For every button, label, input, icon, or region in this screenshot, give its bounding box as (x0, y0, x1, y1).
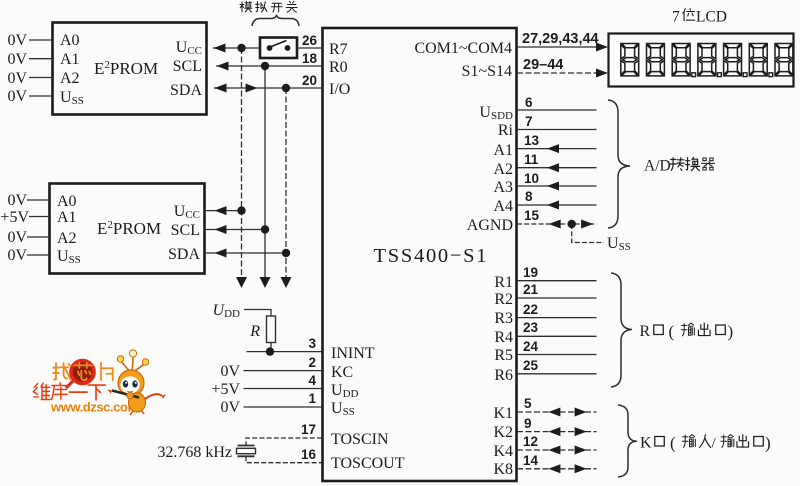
svg-text:13: 13 (524, 133, 540, 148)
svg-text:24: 24 (523, 339, 539, 354)
svg-text:E2PROM: E2PROM (97, 219, 161, 238)
svg-text:): ) (728, 322, 734, 341)
svg-text:K4: K4 (493, 443, 513, 460)
svg-text:TOSCOUT: TOSCOUT (331, 455, 405, 472)
svg-text:R4: R4 (494, 329, 513, 346)
svg-text:0V: 0V (7, 70, 27, 87)
svg-text:16: 16 (301, 447, 317, 462)
svg-text:12: 12 (523, 434, 538, 449)
svg-text:14: 14 (523, 453, 539, 468)
svg-text:KC: KC (331, 364, 353, 381)
svg-text:K8: K8 (493, 461, 513, 478)
svg-text:R0: R0 (329, 59, 348, 76)
svg-text:15: 15 (524, 208, 540, 223)
svg-text:0V: 0V (7, 192, 27, 209)
svg-text:0V: 0V (220, 363, 240, 380)
svg-text:SCL: SCL (171, 222, 200, 239)
svg-text:(: ( (669, 322, 675, 341)
svg-text:11: 11 (524, 152, 539, 167)
svg-text:R2: R2 (494, 291, 513, 308)
svg-text:AGND: AGND (467, 217, 513, 234)
svg-text:SCL: SCL (173, 58, 202, 75)
svg-text:26: 26 (302, 33, 318, 48)
svg-text:Ri: Ri (498, 122, 514, 139)
svg-text:A0: A0 (60, 32, 80, 49)
svg-text:0V: 0V (220, 399, 240, 416)
svg-text:TOSCIN: TOSCIN (331, 431, 389, 448)
svg-text:A1: A1 (60, 51, 80, 68)
svg-text:0V: 0V (7, 88, 27, 105)
svg-text:17: 17 (301, 422, 316, 437)
svg-text:4: 4 (308, 373, 316, 388)
svg-text:18: 18 (302, 51, 318, 66)
svg-text:7: 7 (525, 114, 533, 129)
svg-text:21: 21 (523, 282, 539, 297)
svg-text:K: K (640, 435, 652, 452)
svg-text:5: 5 (524, 396, 532, 411)
svg-text:): ) (765, 434, 771, 453)
svg-text:A2: A2 (60, 70, 80, 87)
svg-text:27,29,43,44: 27,29,43,44 (522, 31, 599, 47)
svg-text:20: 20 (302, 73, 317, 88)
svg-text:A4: A4 (493, 198, 513, 215)
svg-text:32.768 kHz: 32.768 kHz (157, 444, 232, 461)
svg-text:R1: R1 (494, 274, 513, 291)
svg-text:SDA: SDA (170, 82, 202, 99)
svg-text:9: 9 (524, 416, 532, 431)
svg-text:8: 8 (525, 189, 533, 204)
svg-text:K1: K1 (493, 405, 513, 422)
svg-text:2: 2 (308, 355, 316, 370)
svg-text:(: ( (670, 434, 676, 453)
svg-text:3: 3 (308, 336, 316, 351)
svg-text:+5V: +5V (211, 381, 240, 398)
svg-text:29–44: 29–44 (523, 57, 563, 73)
svg-text:TSS400−S1: TSS400−S1 (374, 245, 487, 267)
svg-text:0V: 0V (7, 32, 27, 49)
svg-text:SDA: SDA (168, 246, 200, 263)
svg-text:R: R (640, 323, 651, 340)
svg-text:R: R (249, 323, 260, 340)
svg-text:0V: 0V (7, 51, 27, 68)
svg-text:A1: A1 (57, 209, 77, 226)
svg-text:A2: A2 (57, 230, 77, 247)
svg-text:25: 25 (523, 358, 539, 373)
svg-text:www.dzsc.com: www.dzsc.com (50, 400, 139, 415)
svg-text:R7: R7 (329, 41, 348, 58)
svg-text:19: 19 (523, 265, 538, 280)
svg-text:LCD: LCD (696, 9, 727, 26)
svg-text:23: 23 (523, 320, 539, 335)
svg-text:K2: K2 (493, 424, 513, 441)
svg-text:S1~S14: S1~S14 (462, 63, 512, 80)
svg-text:0V: 0V (7, 229, 27, 246)
svg-text:R5: R5 (494, 347, 513, 364)
svg-text:COM1~COM4: COM1~COM4 (414, 40, 512, 57)
svg-text:R6: R6 (494, 367, 513, 384)
svg-text:+5V: +5V (0, 209, 29, 226)
svg-text:7: 7 (672, 9, 680, 26)
svg-text:22: 22 (523, 302, 538, 317)
svg-text:0V: 0V (7, 247, 27, 264)
svg-text:A1: A1 (493, 142, 513, 159)
svg-text:6: 6 (525, 95, 533, 110)
svg-text:A/D: A/D (644, 158, 671, 175)
svg-text:1: 1 (308, 391, 316, 406)
svg-text:10: 10 (524, 171, 539, 186)
svg-text:R3: R3 (494, 310, 513, 327)
svg-text:A3: A3 (493, 179, 513, 196)
svg-text:A0: A0 (57, 193, 77, 210)
svg-text:A2: A2 (493, 161, 513, 178)
svg-text:ININT: ININT (331, 345, 375, 362)
svg-text:I/O: I/O (329, 81, 350, 98)
svg-text:E2PROM: E2PROM (94, 59, 158, 78)
